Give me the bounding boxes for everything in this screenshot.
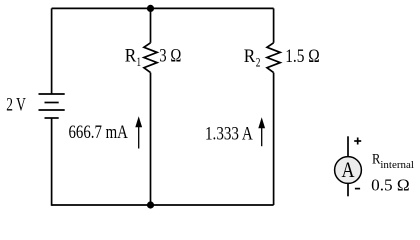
current arrow branch 1 (up) [135,116,142,148]
svg-text:R: R [372,152,381,168]
wire bottom rail [52,204,274,206]
svg-text:R: R [125,47,137,67]
svg-text:666.7 mA: 666.7 mA [69,123,129,143]
svg-text:internal: internal [380,160,414,171]
ammeter top lead [347,136,349,157]
battery plate 2 short [45,102,59,104]
junction dot top node [147,5,154,12]
svg-text:2 V: 2 V [6,96,26,116]
ammeter plus mark [354,138,361,145]
svg-text:1.5 Ω: 1.5 Ω [285,47,320,67]
svg-text:0.5 Ω: 0.5 Ω [371,175,410,194]
current arrow branch 2 (up) [258,117,265,146]
battery plate 4 short (-) [45,117,59,119]
junction dot bottom node [147,201,154,208]
svg-text:1: 1 [137,54,142,69]
svg-text:2: 2 [256,55,261,70]
resistor R2 zigzag [267,43,280,73]
ammeter A1 body [335,157,362,184]
resistor R1 zigzag [144,43,157,73]
wire R1 branch upper [150,8,152,42]
wire R1 branch lower [150,73,152,205]
wire R2 branch upper [273,8,275,42]
wire left vertical upper (battery + to top rail) [51,8,53,94]
ammeter minus mark [355,188,360,190]
wire left vertical lower (battery - to bottom rail) [51,118,53,206]
battery 2 V plate 1 long (+) [39,93,65,95]
battery plate 3 long [39,109,65,111]
svg-text:3 Ω: 3 Ω [159,47,181,67]
svg-text:1.333 A: 1.333 A [205,124,253,144]
wire R2 branch lower [273,73,275,205]
svg-text:R: R [244,47,256,67]
ammeter bottom lead [347,184,349,197]
wire top rail [52,7,274,9]
svg-text:A: A [342,157,355,182]
